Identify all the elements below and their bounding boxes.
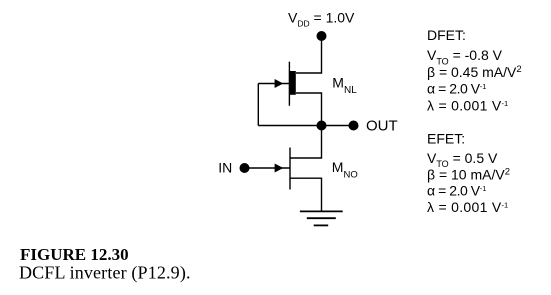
svg-text:DFET:: DFET: [427,27,466,43]
svg-text:β = 0.45 mA/V2: β = 0.45 mA/V2 [427,64,522,80]
svg-text:DCFL inverter (P12.9).: DCFL inverter (P12.9). [19,263,191,284]
svg-text:MNO: MNO [332,159,358,181]
wire: M_NO source to ground [290,178,322,211]
IN terminal dot [240,163,250,173]
svg-text:VDD = 1.0V: VDD = 1.0V [288,10,355,29]
svg-text:FIGURE 12.30: FIGURE 12.30 [20,245,129,264]
ground [300,211,343,225]
svg-text:λ = 0.001 V-1: λ = 0.001 V-1 [427,199,508,215]
wire: M_NL source to output node [296,93,322,126]
VDD terminal dot [317,31,327,41]
OUT terminal dot [349,121,359,131]
wire: node to OUT terminal [322,125,354,127]
transistor M_NL (DFET) [289,62,295,106]
wire: VDD terminal down to M_NL drain [296,36,322,73]
svg-text:β = 10 mA/V2: β = 10 mA/V2 [427,166,510,182]
svg-text:EFET:: EFET: [427,130,465,146]
transistor M_NO (EFET) [289,148,291,190]
wire: feedback gate-to-source (left leg) [257,84,259,126]
gate arrow M_NL [275,79,284,88]
svg-text:α = 2.0 V-1: α = 2.0 V-1 [427,81,486,97]
wire: feedback gate-to-source (bottom leg) [258,125,321,127]
svg-text:α = 2.0 V-1: α = 2.0 V-1 [427,183,486,199]
gate arrow M_NO [275,164,284,173]
svg-text:OUT: OUT [366,118,398,135]
svg-text:IN: IN [218,160,232,176]
wire: M_NL gate lead [258,83,289,85]
wire: node to M_NO drain [290,126,322,159]
svg-text:MNL: MNL [332,74,357,96]
node: output junction dot [317,121,327,131]
svg-text:λ = 0.001 V-1: λ = 0.001 V-1 [427,98,508,114]
wire: IN to M_NO gate [245,167,291,169]
